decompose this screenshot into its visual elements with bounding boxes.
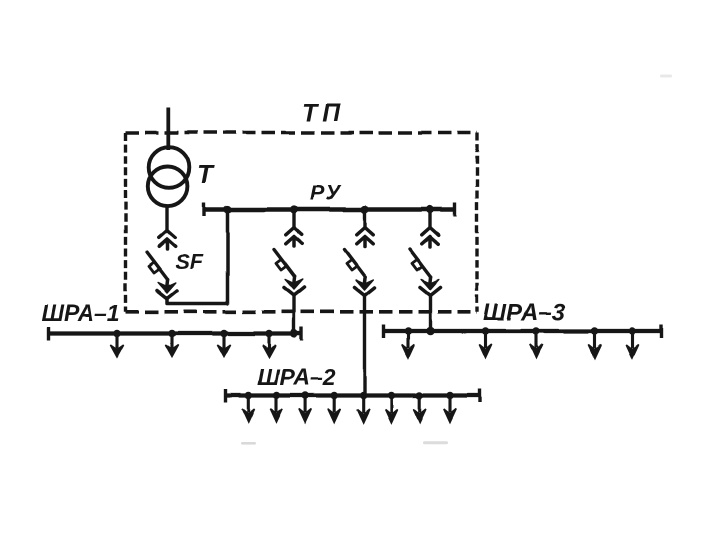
incoming feeder wire — [166, 108, 170, 151]
transformer T — [148, 147, 189, 206]
node feeder2 — [360, 205, 368, 213]
load arrow ShRA-1 tap 4 — [262, 330, 275, 357]
wire SF to RU bus — [167, 210, 228, 304]
svg-text:SF: SF — [175, 250, 203, 274]
feeder 1 breaker — [274, 228, 304, 296]
svg-text:ТП: ТП — [302, 99, 345, 127]
load arrow ShRA-3 tap 5 — [626, 327, 638, 358]
faint scan smudges — [241, 442, 256, 445]
svg-text:РУ: РУ — [310, 181, 342, 205]
feeder 2 wire to ShRA-2 — [363, 295, 366, 396]
ShRA-1 busbar — [47, 331, 303, 335]
wire transformer to SF — [165, 205, 168, 232]
node feeder1 on ShRA-1 — [290, 329, 298, 337]
load arrow ShRA-3 tap 2 — [479, 327, 491, 358]
ShRA-2 busbar — [224, 393, 481, 397]
load arrow ShRA-2 tap 6 — [385, 392, 397, 423]
svg-text:ШРА–1: ШРА–1 — [41, 300, 120, 326]
feeder 3 wire — [428, 210, 431, 230]
load arrow ShRA-1 tap 2 — [165, 330, 178, 357]
load arrow ShRA-3 tap 3 — [530, 327, 542, 358]
load arrow ShRA-2 tap 3 — [299, 392, 311, 423]
load arrow ShRA-2 tap 2 — [270, 392, 282, 423]
breaker SF — [147, 231, 177, 299]
feeder 1 wire to ShRA-1 — [292, 295, 295, 334]
feeder 2 breaker — [345, 228, 375, 296]
load arrow ShRA-2 tap 8 — [444, 392, 456, 423]
node on RU bus (SF tie) — [223, 205, 231, 213]
feeder 3 breaker — [410, 228, 440, 296]
load arrow ShRA-1 tap 1 — [110, 330, 123, 357]
load arrow ShRA-2 tap 5 — [357, 392, 369, 423]
svg-text:ШРА–2: ШРА–2 — [257, 364, 336, 390]
RU busbar — [204, 207, 455, 211]
load arrow ShRA-2 tap 1 — [242, 392, 254, 423]
node feeder3 — [426, 205, 434, 213]
load arrow ShRA-1 tap 3 — [217, 330, 230, 357]
feeder 3 wire to ShRA-3 — [428, 295, 431, 331]
load arrow ShRA-2 tap 7 — [414, 392, 426, 423]
load arrow ShRA-3 tap 1 — [402, 327, 414, 358]
feeder 1 wire — [292, 210, 295, 230]
TP substation dashed box — [126, 133, 478, 312]
feeder 2 wire — [363, 210, 366, 230]
load arrow ShRA-2 tap 4 — [328, 392, 340, 423]
svg-text:Т: Т — [197, 159, 215, 189]
node feeder3 on ShRA-3 — [426, 327, 435, 336]
node feeder1 — [290, 205, 298, 213]
ShRA-3 busbar — [382, 329, 663, 333]
svg-text:ШРА–3: ШРА–3 — [483, 299, 566, 326]
load arrow ShRA-3 tap 4 — [589, 327, 601, 358]
